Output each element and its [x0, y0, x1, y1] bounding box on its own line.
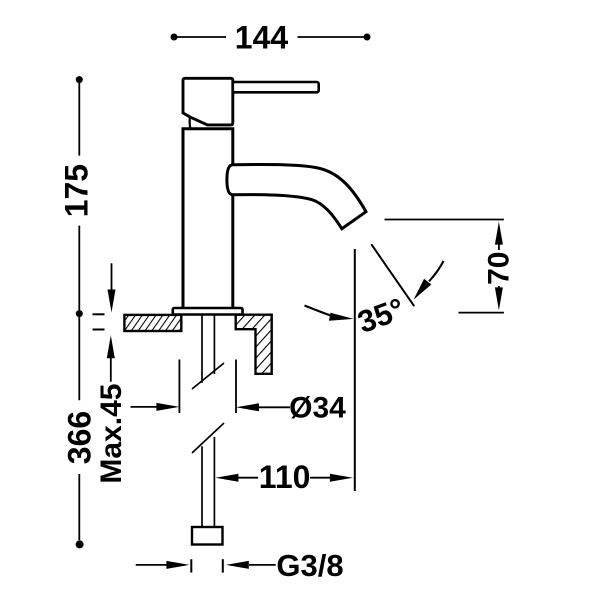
svg-text:70: 70	[483, 252, 516, 285]
svg-text:366: 366	[62, 411, 98, 464]
svg-text:Ø34: Ø34	[289, 392, 346, 425]
svg-text:Max.45: Max.45	[95, 384, 128, 484]
svg-text:175: 175	[59, 164, 95, 217]
svg-text:110: 110	[259, 459, 311, 495]
svg-text:G3/8: G3/8	[276, 548, 343, 583]
svg-text:144: 144	[235, 20, 289, 56]
